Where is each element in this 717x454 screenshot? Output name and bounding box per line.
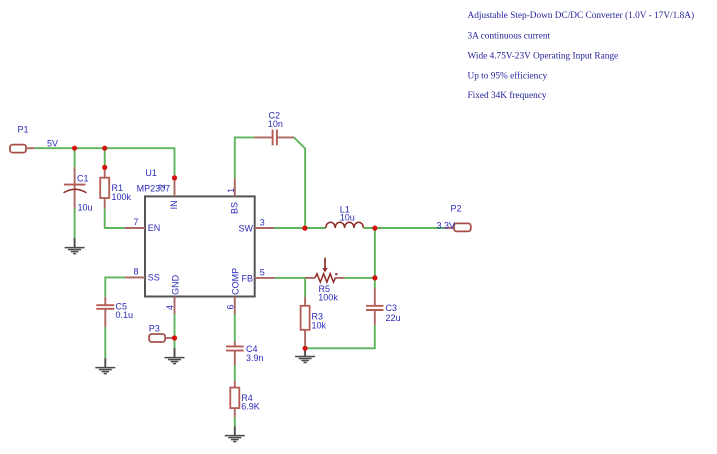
svg-text:4: 4: [165, 305, 175, 310]
svg-text:0.1u: 0.1u: [116, 310, 134, 320]
wire R4 to ground: [234, 417, 236, 426]
wire R1 to EN: [105, 209, 125, 229]
resistor R1: [100, 167, 109, 208]
ground: [95, 359, 115, 374]
junction node 5V/C1: [72, 146, 77, 151]
pin 5 FB stub: [255, 277, 275, 279]
svg-text:1: 1: [226, 188, 236, 193]
svg-text:100k: 100k: [318, 293, 338, 303]
capacitor C4: [226, 342, 244, 366]
svg-text:10u: 10u: [78, 203, 93, 213]
port P3: [149, 334, 174, 342]
wire BS to C2: [235, 137, 255, 178]
port P2: [445, 223, 471, 231]
svg-text:GND: GND: [170, 274, 180, 295]
svg-text:5: 5: [260, 268, 265, 278]
svg-text:IN: IN: [169, 200, 179, 209]
svg-text:2: 2: [157, 184, 167, 189]
svg-text:FB: FB: [241, 273, 253, 283]
capacitor C2: [254, 130, 294, 146]
junction node FB: [372, 275, 377, 280]
svg-text:Up to 95% efficiency: Up to 95% efficiency: [468, 71, 548, 82]
svg-text:C3: C3: [386, 303, 398, 313]
svg-text:7: 7: [133, 217, 138, 227]
svg-text:8: 8: [133, 267, 138, 277]
svg-text:10u: 10u: [340, 213, 355, 223]
svg-text:C1: C1: [77, 174, 89, 184]
capacitor C1: [64, 167, 87, 209]
junction IN pin: [172, 175, 177, 180]
pin 1 BS stub: [234, 178, 236, 196]
svg-text:COMP: COMP: [231, 268, 241, 295]
wire output node down: [374, 228, 376, 278]
wire C4 to R4: [234, 366, 236, 381]
svg-text:3A continuous current: 3A continuous current: [468, 31, 551, 41]
svg-text:SS: SS: [148, 272, 160, 282]
wire 5V bus: [35, 148, 175, 178]
wire to C1: [74, 148, 76, 167]
potentiometer R5: [305, 258, 345, 282]
svg-text:3: 3: [260, 218, 265, 228]
pin 4 GND stub: [174, 297, 176, 315]
wire L1 to P2: [363, 227, 445, 229]
wire FB: [275, 278, 305, 297]
ground: [295, 348, 315, 362]
ground: [225, 427, 245, 442]
svg-text:Wide 4.75V-23V Operating Input: Wide 4.75V-23V Operating Input Range: [468, 52, 619, 62]
svg-text:U1: U1: [145, 168, 157, 178]
svg-text:P3: P3: [149, 324, 160, 334]
wire SW: [274, 227, 326, 229]
resistor R3: [301, 297, 310, 345]
ground: [65, 238, 85, 254]
junction node GND1: [303, 346, 308, 351]
wire R5 to output node: [345, 277, 375, 279]
inductor L1: [326, 222, 364, 228]
wire C1 to ground: [74, 209, 76, 239]
svg-text:6.9K: 6.9K: [241, 401, 260, 411]
wire R3 bottom: [304, 345, 306, 348]
pin 2 IN stub: [174, 178, 176, 197]
wire GND pin down: [174, 314, 176, 338]
junction node 5V/R1: [102, 146, 107, 151]
svg-text:Fixed 34K frequency: Fixed 34K frequency: [468, 90, 547, 101]
junction R1 top: [102, 165, 107, 170]
svg-text:SW: SW: [239, 223, 254, 233]
svg-text:100k: 100k: [112, 192, 132, 202]
wire C2 to SW node: [294, 137, 305, 228]
IC U1 MP2307: [145, 196, 255, 296]
svg-text:3.3V: 3.3V: [437, 220, 456, 230]
svg-text:5V: 5V: [47, 139, 58, 149]
pin 3 SW stub: [255, 227, 275, 229]
svg-text:EN: EN: [148, 223, 161, 233]
svg-text:P1: P1: [18, 125, 29, 135]
junction node GND2: [172, 335, 177, 340]
resistor R4: [230, 381, 239, 418]
svg-text:10n: 10n: [268, 119, 283, 129]
pin 6 COMP stub: [234, 297, 236, 315]
pin 8 SS stub: [125, 276, 145, 278]
capacitor C3: [366, 278, 383, 325]
wire COMP pin down: [234, 314, 236, 341]
svg-text:BS: BS: [230, 202, 240, 214]
ground: [165, 348, 185, 364]
svg-text:P2: P2: [451, 204, 462, 214]
svg-text:Adjustable Step-Down DC/DC Con: Adjustable Step-Down DC/DC Converter (1.…: [468, 10, 695, 21]
svg-text:22u: 22u: [386, 313, 401, 323]
svg-text:6: 6: [225, 304, 235, 309]
wire R3 to C3 bottom: [305, 325, 375, 348]
wire C5 to ground: [104, 327, 106, 359]
svg-text:3.9n: 3.9n: [246, 353, 264, 363]
pin 7 EN stub: [125, 227, 145, 229]
svg-text:10k: 10k: [312, 321, 327, 331]
wire SS to C5: [105, 277, 125, 296]
junction node VOUT: [372, 226, 377, 231]
wire to R1: [104, 148, 106, 167]
junction node SW: [302, 226, 307, 231]
wire to ground: [174, 338, 176, 348]
capacitor C5: [96, 297, 114, 327]
port P1: [10, 145, 35, 153]
